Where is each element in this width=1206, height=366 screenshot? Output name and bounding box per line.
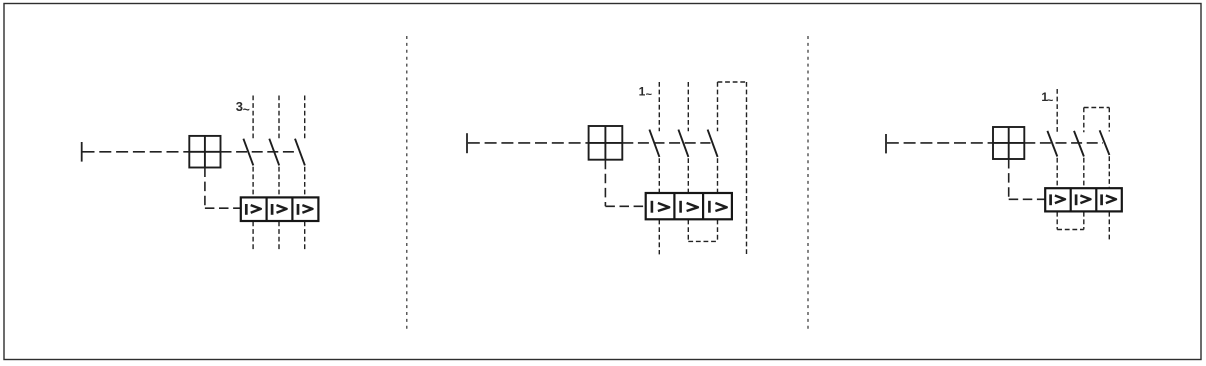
- wire: terminal to mechanism (dashed): [887, 142, 993, 144]
- contact blade pole 3: [295, 139, 305, 166]
- pole 1 lower wire: [1056, 212, 1058, 230]
- pole 2 middle wire: [278, 167, 280, 197]
- contact blade pole 2: [1074, 131, 1084, 157]
- pole 3 upper wire: [717, 82, 719, 131]
- svg-text:~: ~: [646, 89, 653, 101]
- overcurrent trip block F1: [241, 197, 319, 221]
- contact blade pole 1: [243, 139, 253, 166]
- trip element I> cell 3: [298, 204, 313, 215]
- label 1~: [639, 85, 653, 102]
- panel separator line 2: [807, 36, 809, 330]
- pole 2 lower wire: [687, 220, 689, 242]
- trip element I> cell 3: [709, 201, 726, 213]
- contact blade pole 3: [1100, 130, 1110, 155]
- pole 2 middle wire: [687, 158, 689, 192]
- pole 1 upper wire: [658, 82, 660, 131]
- series link: bottom U joining poles 1 and 2: [1057, 229, 1084, 231]
- pole 1 lower wire: [252, 222, 254, 252]
- svg-text:~: ~: [1047, 95, 1054, 107]
- wire: terminal to mechanism (dashed): [468, 142, 589, 144]
- pole 3 lower wire: [304, 222, 306, 252]
- trip element I> cell 1: [246, 204, 260, 215]
- pole 1 middle wire: [252, 167, 254, 197]
- pole 3 lower wire: [717, 220, 719, 242]
- series link: top bridge from pole 3: [718, 81, 747, 83]
- trip linkage wire across: [605, 205, 645, 207]
- panel separator line 1: [406, 36, 408, 330]
- pole 1 upper wire: [1056, 89, 1058, 132]
- pole 3 upper wire: [1108, 108, 1110, 132]
- pole 1 middle wire: [1056, 158, 1058, 188]
- pole 2 upper wire: [278, 96, 280, 141]
- pole 3 lower wire: [1108, 212, 1110, 242]
- wire: terminal to mechanism (dashed): [83, 151, 190, 153]
- svg-text:1: 1: [639, 85, 646, 99]
- contact blade pole 1: [1047, 131, 1057, 157]
- pole 3 middle wire: [717, 158, 719, 192]
- series link: right return wire: [746, 82, 748, 254]
- pole 2 lower wire: [1083, 212, 1085, 230]
- pole 1 upper wire: [252, 96, 254, 141]
- trip linkage wire down: [604, 160, 606, 207]
- pole 2 lower wire: [278, 222, 280, 252]
- contact blade pole 3: [708, 130, 718, 157]
- series link: bottom U joining poles 2 and 3: [688, 240, 717, 242]
- trip element I> cell 1: [652, 201, 669, 213]
- trip linkage wire across: [1009, 198, 1045, 200]
- pole 1 lower wire: [658, 220, 660, 255]
- svg-text:~: ~: [243, 102, 250, 116]
- trip element I> cell 2: [272, 204, 287, 215]
- operating mechanism box K1: [189, 136, 220, 168]
- trip element I> cell 3: [1102, 194, 1116, 205]
- trip linkage wire down: [204, 168, 206, 209]
- contact blade pole 2: [678, 130, 688, 157]
- operating mechanism box K3: [993, 127, 1024, 159]
- label 1~: [1041, 90, 1054, 107]
- pole 3 upper wire: [304, 96, 306, 141]
- pole 1 middle wire: [658, 158, 660, 192]
- terminal tick T3: [885, 134, 887, 153]
- wire: mechanism to contacts linkage (dashed): [622, 142, 710, 144]
- trip linkage wire across: [205, 207, 241, 209]
- label 3~: [236, 99, 250, 116]
- terminal tick T1: [81, 142, 83, 162]
- operating mechanism box K2: [589, 126, 623, 160]
- trip element I> cell 2: [1076, 194, 1090, 205]
- trip element I> cell 2: [681, 201, 698, 213]
- trip element I> cell 1: [1051, 194, 1065, 205]
- contact blade pole 2: [269, 139, 279, 166]
- terminal tick T2: [466, 133, 468, 153]
- pole 2 upper wire: [1083, 108, 1085, 133]
- overcurrent trip block F3: [1045, 188, 1122, 211]
- wire: mechanism to contacts linkage (dashed): [1024, 142, 1103, 144]
- pole 3 middle wire: [304, 167, 306, 197]
- overcurrent trip block F2: [646, 193, 732, 219]
- trip linkage wire down: [1008, 159, 1010, 199]
- pole 2 middle wire: [1083, 158, 1085, 188]
- wire: mechanism to contacts linkage (dashed): [221, 151, 299, 153]
- pole 2 upper wire: [687, 82, 689, 131]
- series link: top bridge joining poles 2 and 3: [1084, 107, 1110, 109]
- contact blade pole 1: [649, 130, 659, 157]
- pole 3 middle wire: [1108, 156, 1110, 188]
